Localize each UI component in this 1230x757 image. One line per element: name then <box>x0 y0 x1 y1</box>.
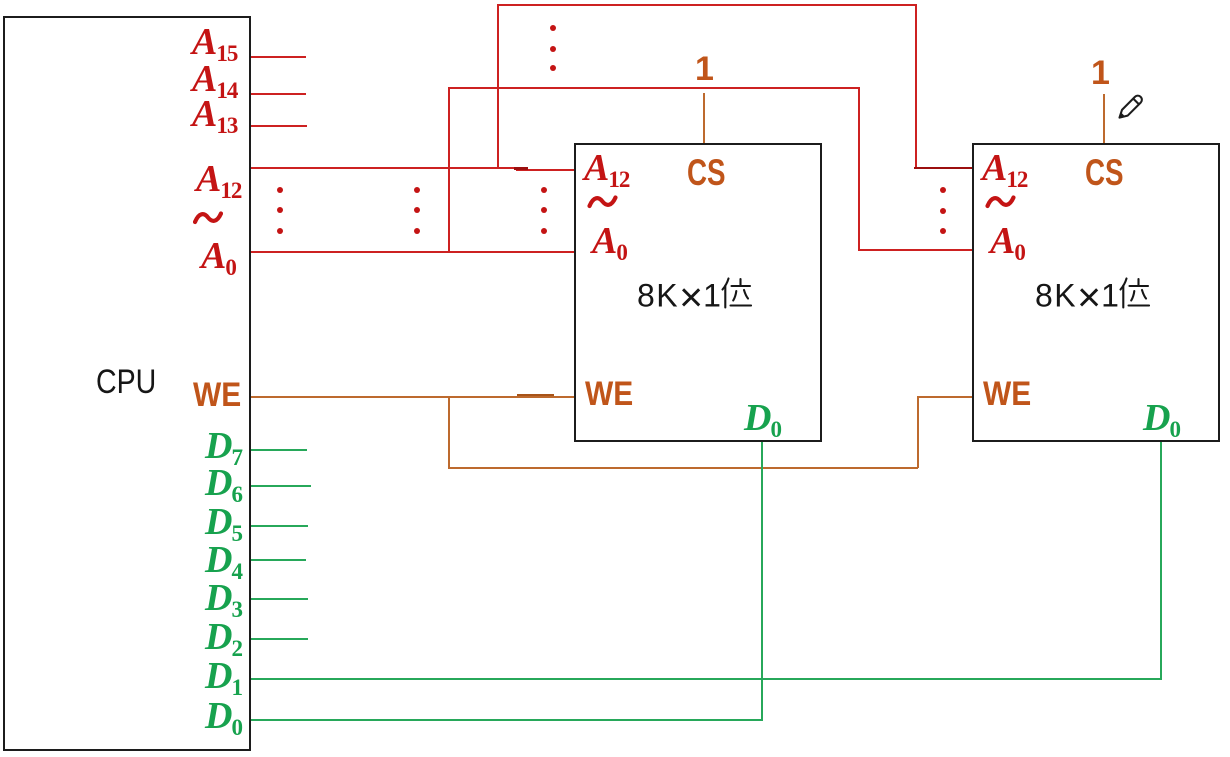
CS constant label 1 (chip U2) <box>1091 56 1110 90</box>
wire A12 detour left vertical <box>497 4 499 169</box>
pin label WE (CPU) <box>193 378 241 412</box>
wire D1 rail to chip U2 <box>251 678 1162 680</box>
wire A0 detour right vertical <box>858 87 860 250</box>
wire D0 rail to chip U1 <box>251 719 763 721</box>
address ellipsis dots column 3 <box>541 187 547 193</box>
wire WE branch vertical up to chip U2 <box>917 396 919 468</box>
memory chip U1 (8K x 1) box <box>574 143 822 442</box>
wire D5 stub <box>251 525 308 527</box>
pin label D2 <box>205 618 243 656</box>
chip U1 capacity CJK char (wei) <box>718 276 752 310</box>
wire D1 vertical to chip U2 D0 pin <box>1160 442 1162 680</box>
pin label D5 <box>205 503 243 541</box>
chip U2 pin label CS <box>1085 154 1124 191</box>
chip U1 pin label A0 <box>592 222 628 260</box>
pencil icon <box>1114 89 1147 122</box>
chip U2 capacity CJK char (wei) <box>1116 276 1150 310</box>
pin label A0 (CPU) <box>201 237 237 275</box>
wire D4 stub <box>251 559 306 561</box>
address ellipsis dots top detour <box>550 25 556 31</box>
tilde (CPU address ellipsis) <box>193 208 223 228</box>
chip U2 capacity label 8K x 1 <box>1035 277 1120 318</box>
wire D7 stub <box>251 449 307 451</box>
chip U2 pin label A12 <box>982 149 1028 187</box>
wire D3 stub <box>251 598 308 600</box>
wire A12 top detour rail <box>497 4 917 6</box>
pin label A13 <box>192 95 238 133</box>
chip U1 pin label D0 <box>744 399 782 437</box>
chip U1 pin label CS <box>687 154 726 191</box>
pin label D4 <box>205 541 243 579</box>
wire A0 detour left vertical <box>448 87 450 253</box>
chip U2 pin label WE <box>983 377 1031 411</box>
CPU label <box>96 365 156 399</box>
pin label D1 <box>205 657 243 695</box>
wire A12 stub into chip U1 <box>516 169 574 171</box>
memory chip U2 (8K x 1) box <box>972 143 1220 442</box>
chip U2 pin label D0 <box>1143 399 1181 437</box>
chip U1 capacity label 8K x 1 <box>637 277 722 318</box>
pin label D0 (CPU) <box>205 697 243 735</box>
address ellipsis dots column 1 <box>277 187 283 193</box>
wire CS drop chip U2 <box>1103 94 1105 143</box>
chip U2 pin label A0 <box>990 222 1026 260</box>
wire WE rail CPU to chip U1 <box>251 396 574 398</box>
wire D6 stub <box>251 485 311 487</box>
chip U1 tilde <box>586 192 619 212</box>
chip U1 pin label WE <box>585 377 633 411</box>
wire WE overlap stub chip U1 <box>517 394 554 396</box>
wire A12 stub into chip U2 <box>914 167 972 169</box>
pin label D3 <box>205 579 243 617</box>
address ellipsis dots column 2 <box>414 187 420 193</box>
wire WE branch vertical down <box>448 396 450 468</box>
pin label A15 <box>192 23 238 61</box>
wire A0 detour rail <box>448 87 860 89</box>
CS constant label 1 (chip U1) <box>695 52 714 86</box>
wire CS drop chip U1 <box>703 93 705 143</box>
wire A13 stub <box>251 125 307 127</box>
pin label A14 <box>192 60 238 98</box>
wire A14 stub <box>251 93 306 95</box>
wire D2 stub <box>251 638 308 640</box>
chip U1 pin label A12 <box>584 149 630 187</box>
address ellipsis dots chip U2 <box>940 187 946 193</box>
wire A0 rail CPU to chip U1 <box>251 251 574 253</box>
CPU box <box>3 16 251 751</box>
wire A12 junction overlap dash <box>514 167 528 170</box>
pin label D7 <box>205 427 243 465</box>
chip U2 tilde <box>984 192 1017 212</box>
wire D0 vertical to chip U1 D0 pin <box>761 442 763 721</box>
wire A15 stub <box>251 56 306 58</box>
wire WE stub into chip U2 <box>917 396 972 398</box>
pin label A12 (CPU) <box>196 160 242 198</box>
wire WE low rail <box>448 467 918 469</box>
wire A0 stub into chip U2 <box>858 249 972 251</box>
wire A12 rail CPU to chip U1 <box>251 167 526 169</box>
pin label D6 <box>205 464 243 502</box>
wire A12 detour right vertical <box>915 4 917 167</box>
